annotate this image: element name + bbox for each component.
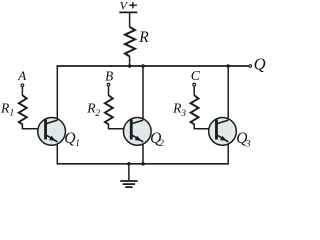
svg-text:2: 2	[159, 138, 164, 149]
wire Q3 collector to top bus	[227, 66, 229, 120]
svg-text:2: 2	[95, 108, 100, 119]
wire R to top bus	[129, 56, 131, 66]
resistor R1	[19, 95, 27, 124]
wire bottom bus to ground	[128, 164, 130, 180]
svg-text:1: 1	[75, 138, 80, 149]
svg-text:C: C	[191, 68, 201, 83]
wire Q2 collector to top bus	[142, 66, 144, 120]
svg-text:Q: Q	[254, 55, 266, 74]
svg-text:V: V	[120, 0, 129, 13]
svg-text:R: R	[138, 29, 149, 46]
svg-text:3: 3	[245, 138, 251, 149]
wire R1 to Q1 base	[22, 124, 45, 129]
svg-text:1: 1	[9, 108, 14, 119]
resistor R3	[191, 95, 199, 124]
transistor Q2	[123, 66, 151, 164]
svg-text:3: 3	[180, 108, 186, 119]
wire A to R1	[21, 87, 23, 96]
wire B to R2	[108, 86, 110, 95]
transistor Q3	[209, 66, 237, 165]
bottom bus wire (ground node)	[57, 163, 229, 165]
junction dot ground stub / bottom bus	[127, 162, 131, 166]
wire R3 to Q3 base	[194, 124, 216, 129]
wire Q1 emitter to bottom bus	[56, 141, 58, 165]
junction dot R / top bus	[128, 64, 132, 68]
transistor Q1	[38, 65, 66, 164]
junction dot Q2 collector / top bus	[141, 64, 145, 68]
wire Q2 emitter to bottom bus	[142, 141, 144, 164]
top bus wire (output node)	[57, 65, 249, 67]
svg-text:Q: Q	[64, 130, 75, 147]
wire V+ bar to resistor R	[129, 12, 131, 27]
output terminal Q	[249, 65, 252, 68]
wire C to R3	[193, 86, 195, 95]
wire Q1 collector to top bus	[56, 65, 58, 120]
wire R2 to Q2 base	[109, 124, 132, 129]
junction dot Q3 collector / top bus	[226, 64, 230, 68]
ground	[120, 181, 137, 187]
resistor R	[125, 27, 135, 57]
svg-text:A: A	[17, 68, 26, 83]
resistor R2	[105, 95, 113, 124]
wire Q3 emitter to bottom bus	[227, 141, 229, 165]
power rail bar	[119, 11, 137, 13]
svg-text:B: B	[105, 68, 113, 83]
junction dot Q2 emitter / bottom bus	[141, 162, 145, 166]
